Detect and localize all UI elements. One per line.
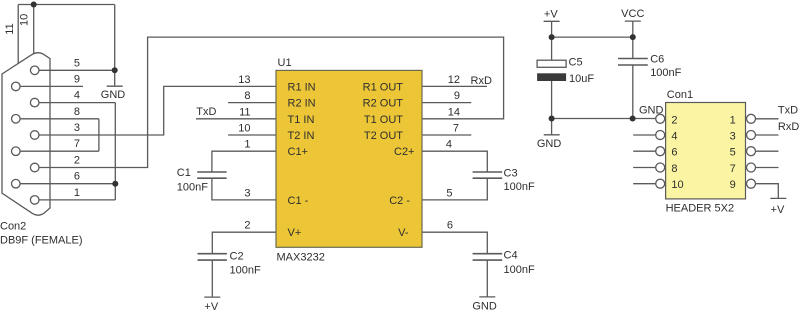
svg-text:Con1: Con1 — [667, 89, 693, 101]
svg-text:C2: C2 — [230, 250, 244, 262]
svg-text:7: 7 — [730, 163, 736, 175]
svg-text:7: 7 — [74, 138, 80, 150]
svg-text:7: 7 — [453, 123, 459, 135]
connector Con1 header box — [666, 103, 746, 199]
wire TxD to T1 IN — [196, 118, 276, 120]
pin 9 circle — [12, 82, 21, 91]
svg-text:T2 OUT: T2 OUT — [364, 130, 403, 142]
svg-text:C4: C4 — [504, 250, 518, 262]
svg-text:8: 8 — [74, 106, 80, 118]
svg-text:U1: U1 — [278, 57, 292, 69]
svg-text:GND: GND — [101, 89, 126, 101]
svg-text:TxD: TxD — [196, 106, 216, 118]
svg-text:C2+: C2+ — [394, 146, 415, 158]
svg-text:6: 6 — [447, 220, 453, 232]
wire C6 bottom vertical — [632, 65, 634, 119]
capacitor C3 — [473, 172, 503, 178]
pin 1 circle — [30, 196, 39, 205]
svg-text:9: 9 — [730, 179, 736, 191]
svg-text:100nF: 100nF — [177, 182, 208, 194]
svg-text:T2 IN: T2 IN — [288, 130, 315, 142]
svg-text:C1+: C1+ — [288, 146, 309, 158]
svg-text:R2 IN: R2 IN — [288, 98, 316, 110]
wire C1 to C1- — [212, 178, 276, 200]
svg-text:10: 10 — [19, 14, 31, 26]
wire DB9 pin 5 to GND junction — [39, 69, 115, 71]
pin 8 circle — [12, 115, 21, 124]
wire +V to VCC horizontal — [552, 36, 633, 38]
wire DB9 pin 6 — [20, 183, 115, 185]
wire header pin 5 stub — [756, 150, 779, 152]
svg-text:R1 IN: R1 IN — [288, 81, 316, 93]
wire GND row to header pin 2 — [552, 118, 656, 120]
header pin 1 circle — [747, 114, 756, 123]
svg-text:VCC: VCC — [621, 8, 644, 20]
capacitor C6 — [618, 59, 648, 66]
wire C5 bottom to GND — [551, 81, 553, 135]
power terminal +V bottom — [204, 296, 220, 298]
wire +V rail to VCC — [551, 21, 553, 60]
header pin 5 circle — [747, 147, 756, 156]
wire header pin 4 stub — [633, 134, 656, 136]
wire header pin 9 to +V — [756, 184, 779, 199]
capacitor C1 — [197, 172, 226, 178]
svg-text:100nF: 100nF — [504, 181, 535, 193]
power terminal +V top — [544, 20, 560, 22]
wire C2 to +V terminal — [211, 260, 213, 297]
svg-text:2: 2 — [74, 155, 80, 167]
svg-text:14: 14 — [448, 106, 460, 118]
svg-text:13: 13 — [238, 74, 250, 86]
svg-text:RxD: RxD — [471, 75, 492, 87]
junction dot GND pin5 — [112, 67, 118, 73]
svg-text:9: 9 — [74, 73, 80, 85]
svg-text:10: 10 — [671, 179, 683, 191]
header pin 4 circle — [656, 131, 665, 140]
wire GND top horizontal — [18, 4, 115, 6]
wire V+ to C2 — [212, 232, 276, 254]
wire C1+ to C1 — [212, 151, 276, 172]
svg-text:+V: +V — [204, 301, 218, 311]
wire DB9 pin 3 to R1 IN — [39, 86, 276, 135]
wire V- to C4 — [422, 232, 487, 254]
ground symbol below C4 — [479, 296, 495, 298]
svg-text:C5: C5 — [569, 57, 583, 69]
header pin 7 circle — [747, 163, 756, 172]
svg-text:2: 2 — [244, 220, 250, 232]
junction dot pin10 top — [31, 2, 37, 8]
svg-text:Con2: Con2 — [0, 221, 26, 233]
svg-text:2: 2 — [671, 114, 677, 126]
wire DB9 pin 10 vertical — [33, 5, 35, 55]
wire header pin 6 stub — [633, 150, 656, 152]
svg-text:DB9F (FEMALE): DB9F (FEMALE) — [0, 235, 83, 247]
wire header pin 1 TxD stub — [756, 118, 779, 120]
pin 5 circle — [30, 66, 39, 75]
header pin 8 circle — [656, 163, 665, 172]
svg-text:12: 12 — [448, 74, 460, 86]
svg-text:5: 5 — [74, 57, 80, 69]
header pin 6 circle — [656, 147, 665, 156]
svg-text:3: 3 — [74, 122, 80, 134]
svg-text:10: 10 — [238, 123, 250, 135]
header pin 10 circle — [656, 179, 665, 188]
header pin 2 circle — [656, 114, 665, 123]
wire header pin 7 stub — [756, 167, 779, 169]
wire DB9 pin 8 jumper — [20, 118, 99, 120]
connector Con2 DB9F body — [2, 53, 50, 216]
junction dot VCC rail — [630, 34, 636, 40]
svg-text:6: 6 — [74, 171, 80, 183]
wire DB9 pin 2 to T1 OUT — [39, 37, 504, 167]
svg-text:C6: C6 — [650, 54, 664, 66]
wire C4 to GND terminal — [486, 260, 488, 297]
wire R2 OUT stub — [422, 102, 471, 104]
svg-text:4: 4 — [74, 90, 80, 102]
wire T2 IN stub — [228, 134, 276, 136]
wire GND down to junction — [114, 5, 116, 87]
pin 7 circle — [12, 147, 21, 156]
svg-text:T1 IN: T1 IN — [288, 114, 315, 126]
wire VCC vertical to C6 — [632, 21, 634, 58]
svg-text:R1 OUT: R1 OUT — [363, 81, 404, 93]
wire R1 OUT RxD stub — [422, 85, 487, 87]
svg-text:V+: V+ — [288, 227, 302, 239]
svg-text:1: 1 — [244, 139, 250, 151]
svg-text:T1 OUT: T1 OUT — [364, 114, 403, 126]
junction dot pin6 — [112, 181, 118, 187]
wire jumper vertical 7-8 — [98, 119, 100, 151]
junction dot C5 GND row — [549, 116, 555, 122]
pin 2 circle — [30, 163, 39, 172]
wire vertical pins 4-6-1 — [114, 103, 116, 200]
svg-text:C3: C3 — [504, 168, 518, 180]
svg-text:MAX3232: MAX3232 — [277, 252, 325, 264]
svg-text:C1: C1 — [177, 167, 191, 179]
ground symbol DB9 — [107, 85, 123, 87]
pin 4 circle — [30, 98, 39, 107]
svg-text:5: 5 — [446, 187, 452, 199]
svg-text:+V: +V — [544, 9, 558, 21]
junction dot C6 GND row — [630, 116, 636, 122]
capacitor C4 — [473, 254, 503, 260]
svg-text:C2 -: C2 - — [389, 195, 410, 207]
svg-text:C1 -: C1 - — [288, 195, 309, 207]
svg-text:V-: V- — [398, 227, 409, 239]
capacitor C2 — [198, 254, 227, 260]
svg-text:3: 3 — [730, 131, 736, 143]
wire T2 OUT stub — [422, 134, 471, 136]
op-amp U1 MAX3232 box — [276, 70, 422, 247]
wire C2+ to C3 — [422, 151, 487, 172]
wire R2 IN stub — [228, 102, 276, 104]
wire C3 to C2- — [422, 178, 487, 200]
ground symbol below C5 — [544, 134, 560, 136]
pin 6 circle — [12, 179, 21, 188]
svg-text:6: 6 — [671, 147, 677, 159]
svg-text:11: 11 — [239, 106, 250, 118]
svg-text:GND: GND — [472, 301, 497, 311]
wire DB9 pin 11 vertical — [17, 5, 19, 64]
pin 3 circle — [30, 131, 39, 140]
junction dot +V rail — [549, 34, 555, 40]
wire DB9 pin 4 — [39, 102, 115, 104]
wire header pin 10 stub — [633, 183, 656, 185]
wire DB9 pin 1 — [39, 199, 115, 201]
svg-text:+V: +V — [771, 204, 785, 216]
svg-text:R2 OUT: R2 OUT — [363, 98, 404, 110]
svg-text:100nF: 100nF — [650, 67, 681, 79]
wire header pin 3 RxD stub — [756, 134, 779, 136]
svg-text:HEADER 5X2: HEADER 5X2 — [666, 203, 734, 215]
capacitor C5 polarized bottom plate — [537, 73, 566, 81]
capacitor C5 polarized top plate — [537, 60, 566, 67]
svg-text:100nF: 100nF — [230, 265, 261, 277]
wire header pin 8 stub — [633, 167, 656, 169]
power terminal +V header — [770, 197, 786, 199]
header pin 3 circle — [747, 131, 756, 140]
svg-text:5: 5 — [730, 147, 736, 159]
svg-text:RxD: RxD — [778, 121, 799, 133]
svg-text:4: 4 — [671, 131, 677, 143]
svg-text:3: 3 — [244, 187, 250, 199]
svg-text:4: 4 — [446, 139, 452, 151]
svg-text:9: 9 — [454, 90, 460, 102]
svg-text:10uF: 10uF — [569, 73, 594, 85]
svg-text:1: 1 — [730, 114, 736, 126]
svg-text:GND: GND — [537, 138, 562, 150]
power terminal VCC — [625, 20, 641, 22]
svg-text:1: 1 — [74, 187, 80, 199]
svg-text:8: 8 — [671, 163, 677, 175]
svg-text:11: 11 — [4, 23, 16, 34]
svg-text:8: 8 — [244, 90, 250, 102]
header pin 9 circle — [747, 179, 756, 188]
wire DB9 pin 7 jumper — [20, 150, 99, 152]
svg-text:TxD: TxD — [778, 105, 798, 117]
wire DB9 pin 9 stub — [20, 85, 83, 87]
svg-text:100nF: 100nF — [504, 264, 535, 276]
